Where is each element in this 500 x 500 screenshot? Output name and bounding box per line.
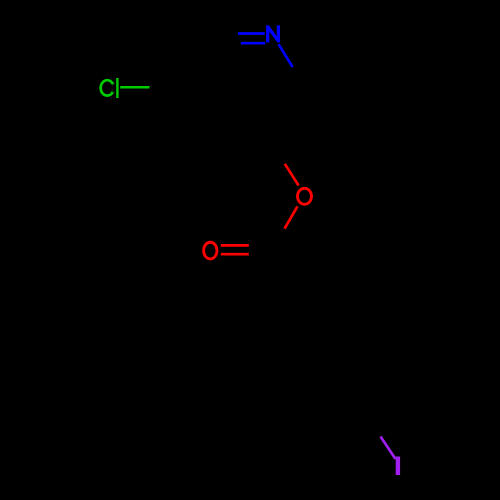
bond C3-O ester (red half): [285, 164, 299, 186]
bond N=C6 main line (blue half): [238, 32, 265, 35]
bond N=C6 inner double line (blue half): [241, 42, 265, 45]
atom label N (pyridine nitrogen): [266, 25, 280, 42]
bond C=O bottom line (red half): [221, 253, 249, 256]
atom label Cl (chlorine): [101, 78, 119, 98]
atom label I (iodine): [396, 457, 400, 476]
atom label O (ester oxygen): [298, 188, 312, 204]
bond O-C carbonyl (red half): [285, 206, 298, 228]
bond C4'-I (purple half): [381, 437, 396, 460]
bond C=O top line (red half): [221, 244, 249, 247]
bond Cl-C5 (green half): [120, 86, 149, 89]
atom label O (carbonyl oxygen): [204, 242, 217, 259]
bond N-C2 (blue half): [279, 44, 293, 67]
